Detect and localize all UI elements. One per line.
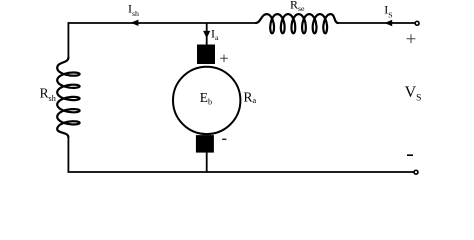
wire left vertical lower xyxy=(67,137,69,172)
wire armature branch top xyxy=(206,23,208,46)
terminal top-right xyxy=(415,21,419,25)
inductor Rse (series field winding) xyxy=(256,14,338,33)
wire left vertical xyxy=(67,22,69,58)
plus sign top-right xyxy=(407,34,416,43)
inductor Rsh (shunt field winding) xyxy=(57,58,79,138)
motor armature (Eb, Ra) circle xyxy=(173,67,240,134)
arrow Is (points left) xyxy=(385,20,393,26)
brush top xyxy=(197,45,215,65)
terminal bottom-right xyxy=(414,170,418,174)
plus sign brush top xyxy=(220,55,228,63)
wire top-left horizontal xyxy=(68,22,258,24)
minus sign brush bottom xyxy=(222,138,226,140)
wire bottom bus xyxy=(68,171,415,173)
minus sign bottom-right xyxy=(407,154,413,156)
brush bottom xyxy=(196,135,214,153)
arrow Ia (points down) xyxy=(203,31,210,38)
wire top-right horizontal xyxy=(337,22,415,24)
wire armature branch bottom xyxy=(206,152,208,172)
arrow Ish (points left) xyxy=(131,20,139,26)
